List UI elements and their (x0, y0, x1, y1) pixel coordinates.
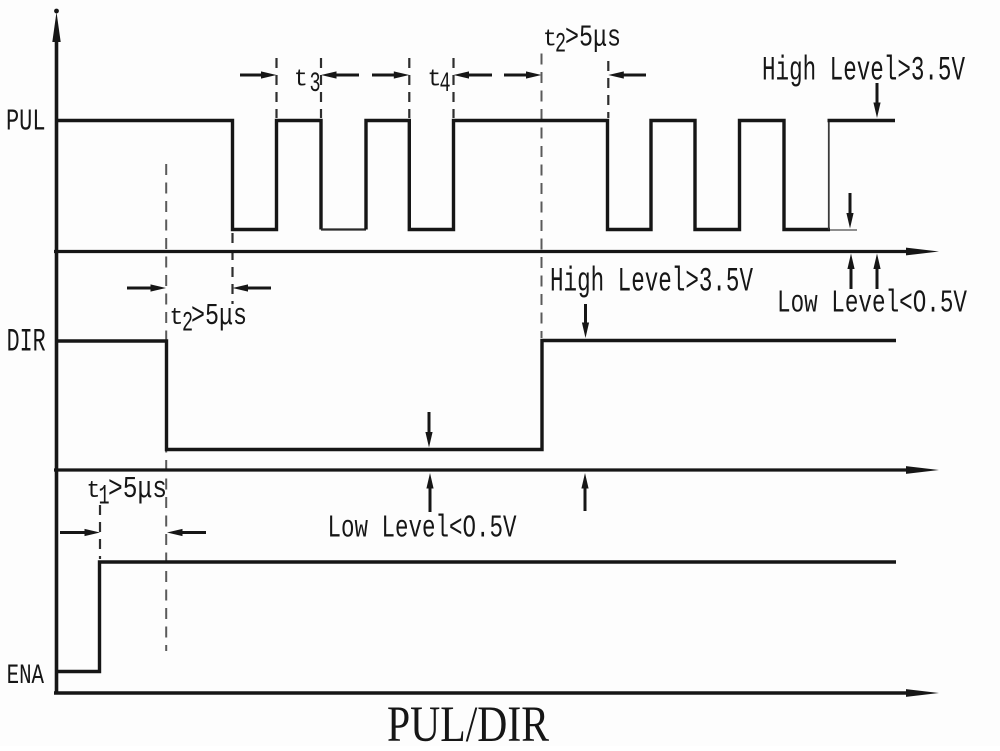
dimension arrow t2 right (points left at x=608) (608, 71, 646, 78)
time axis 1 (PUL baseline) (54, 248, 939, 256)
dimension arrow t2 left (points right at x=541) (504, 71, 542, 78)
dashed guide x=321 (t3 right) (320, 58, 322, 118)
label Low Level<0.5V (PUL) (777, 286, 967, 322)
dashed guide x=453 (t4 right) (452, 58, 454, 118)
svg-text:High Level>3.5V: High Level>3.5V (762, 51, 966, 90)
PUL low level thin extension (830, 229, 857, 231)
DIR waveform (58, 341, 896, 450)
dimension arrow t4 right (points left at x=453) (454, 71, 493, 78)
PUL waveform part 2 (366, 121, 830, 230)
svg-text:High Level>3.5V: High Level>3.5V (550, 262, 754, 301)
label t4 (428, 66, 451, 100)
dimension arrow ENA-t1 right (points left at x=167) (167, 529, 206, 536)
dashed guide x=166 (long, DIR edge down to ENA) (165, 164, 167, 651)
dimension arrow t4 left (points right at x=409) (372, 71, 409, 78)
dashed guide x=409 (t4 left) (408, 58, 410, 118)
label Low Level<0.5V (DIR) (328, 511, 517, 547)
svg-text:Low Level<O.5V: Low Level<O.5V (777, 286, 967, 322)
label High Level>3.5V (DIR) (550, 262, 754, 301)
level arrow up to axis1 (x=877) (873, 254, 880, 290)
svg-text:3: 3 (310, 69, 321, 101)
label High Level>3.5V (PUL) (762, 51, 966, 90)
level arrow down to PUL low (x=850) (846, 193, 853, 229)
title PUL/DIR (387, 696, 549, 751)
label t3 (294, 66, 321, 100)
label PUL (6, 104, 46, 139)
label DIR (7, 325, 46, 361)
dashed guide x=232 (below PUL first fall) (231, 233, 233, 304)
dimension arrow ENA-t1 left (points right at x=100) (60, 529, 100, 536)
svg-text:PUL/DIR: PUL/DIR (387, 696, 549, 746)
svg-text:Low Level<O.5V: Low Level<O.5V (328, 511, 517, 547)
label ENA (7, 660, 45, 692)
dashed guide x=608 (t2 right, top row) (607, 61, 609, 118)
PUL waveform thin low segment t3-t4 (321, 228, 366, 230)
dashed guide x=100 (ENA rise) (99, 505, 101, 559)
level arrow up to axis1 (x=851) (847, 254, 854, 290)
PUL last rising edge (thin) (828, 122, 830, 230)
svg-text:ENA: ENA (7, 660, 45, 692)
time axis 2 (DIR baseline) (54, 466, 939, 474)
svg-text:>5μs: >5μs (565, 22, 621, 56)
label t1>5us (ENA) (87, 473, 168, 512)
label t2>5us (DIR) (170, 300, 248, 339)
svg-text:t: t (294, 66, 308, 94)
dimension arrow DIR-t2 left (points right at x=166) (127, 284, 166, 291)
dimension arrow t3 left (points right at x=276) (240, 71, 277, 78)
svg-text:>5μs: >5μs (191, 300, 247, 334)
label t2>5us (top) (543, 22, 621, 61)
svg-text:4: 4 (440, 69, 451, 101)
PUL final high segment (828, 119, 896, 122)
svg-text:DIR: DIR (7, 325, 46, 361)
svg-text:>5μs: >5μs (108, 473, 167, 507)
level arrow down to DIR high (x=585) (582, 304, 589, 338)
dashed guide x=276 (t3 left) (275, 58, 277, 118)
PUL waveform part 1 (58, 121, 321, 230)
time axis 3 (ENA baseline) (54, 689, 939, 697)
level arrow up to axis2 (x=585) (581, 473, 588, 511)
svg-text:PUL: PUL (6, 104, 46, 139)
dimension arrow t3 right (points left at x=321) (321, 71, 359, 78)
dashed guide x=541 (long, t2 left down to DIR) (541, 54, 543, 339)
ENA waveform (58, 562, 896, 672)
level arrow down to PUL high (x=877) (873, 83, 880, 118)
dimension arrow DIR-t2 right (points left at x=232) (233, 284, 272, 291)
vertical axis (signal axis) (52, 9, 60, 694)
level arrow up to axis2 (x=430) (426, 473, 433, 512)
level arrow down to DIR low (x=429) (425, 412, 432, 448)
